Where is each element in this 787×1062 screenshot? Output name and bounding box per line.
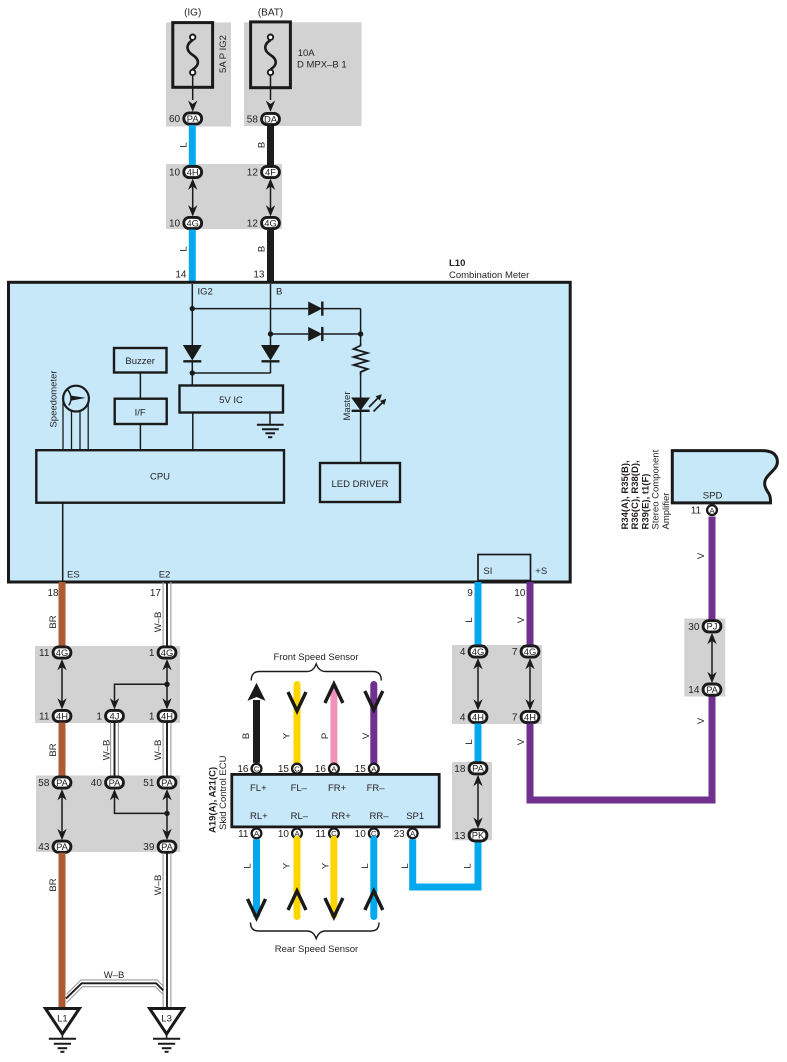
svg-text:PA: PA — [472, 763, 485, 774]
svg-text:10: 10 — [355, 829, 367, 840]
svg-text:43: 43 — [38, 842, 50, 853]
svg-text:10A: 10A — [298, 48, 316, 59]
svg-text:14: 14 — [175, 270, 187, 281]
svg-text:ES: ES — [67, 570, 80, 581]
svg-text:Buzzer: Buzzer — [125, 356, 155, 367]
svg-text:PA: PA — [706, 684, 719, 695]
svg-text:P: P — [320, 733, 331, 739]
svg-text:L: L — [178, 142, 189, 147]
svg-text:L: L — [178, 246, 189, 251]
svg-text:14: 14 — [688, 685, 700, 696]
svg-text:PA: PA — [161, 841, 174, 852]
svg-text:5V IC: 5V IC — [219, 395, 243, 406]
svg-text:4: 4 — [460, 713, 466, 724]
svg-text:W–B: W–B — [153, 875, 164, 896]
svg-text:PK: PK — [472, 830, 485, 841]
svg-text:23: 23 — [394, 829, 406, 840]
svg-text:4H: 4H — [524, 711, 536, 722]
svg-text:B: B — [241, 733, 252, 739]
svg-text:17: 17 — [150, 588, 162, 599]
svg-text:CPU: CPU — [150, 472, 170, 483]
svg-text:4G: 4G — [186, 217, 199, 228]
svg-text:PA: PA — [56, 841, 69, 852]
svg-text:DA: DA — [264, 113, 278, 124]
svg-text:4F: 4F — [265, 166, 276, 177]
svg-text:PA: PA — [161, 777, 174, 788]
svg-text:SPD: SPD — [703, 491, 723, 502]
svg-text:SP1: SP1 — [406, 811, 424, 822]
svg-text:B: B — [257, 246, 268, 252]
svg-text:RR–: RR– — [370, 811, 390, 822]
svg-text:40: 40 — [91, 778, 103, 789]
svg-text:L: L — [463, 863, 474, 868]
svg-text:4H: 4H — [187, 166, 199, 177]
svg-text:4H: 4H — [161, 710, 173, 721]
svg-text:4: 4 — [460, 647, 466, 658]
svg-text:10: 10 — [169, 168, 181, 179]
svg-text:60: 60 — [169, 114, 181, 125]
svg-text:58: 58 — [38, 778, 50, 789]
svg-text:7: 7 — [512, 647, 518, 658]
svg-text:L: L — [360, 863, 371, 868]
svg-text:W–B: W–B — [102, 740, 113, 761]
svg-text:11: 11 — [691, 506, 702, 517]
svg-text:PA: PA — [187, 113, 200, 124]
svg-text:18: 18 — [454, 764, 466, 775]
svg-text:Skid Control ECU: Skid Control ECU — [218, 755, 229, 830]
svg-text:L: L — [464, 739, 475, 744]
svg-text:V: V — [516, 616, 527, 623]
svg-text:RL–: RL– — [291, 811, 309, 822]
svg-text:D MPX–B 1: D MPX–B 1 — [297, 60, 347, 71]
svg-text:A19(A), A21(C): A19(A), A21(C) — [208, 767, 219, 833]
svg-text:11: 11 — [316, 829, 327, 840]
svg-text:L3: L3 — [161, 1014, 172, 1025]
svg-text:4J: 4J — [110, 710, 120, 721]
svg-text:10: 10 — [169, 219, 181, 230]
svg-text:30: 30 — [688, 622, 700, 633]
svg-text:12: 12 — [247, 168, 259, 179]
svg-text:(BAT): (BAT) — [258, 8, 283, 19]
svg-text:L: L — [464, 617, 475, 622]
svg-text:E2: E2 — [159, 570, 171, 581]
svg-text:B: B — [276, 287, 282, 298]
svg-text:FL–: FL– — [291, 783, 308, 794]
svg-text:L: L — [400, 863, 411, 868]
svg-text:4G: 4G — [264, 217, 277, 228]
svg-text:10: 10 — [278, 829, 290, 840]
svg-text:4G: 4G — [472, 646, 485, 657]
svg-text:15: 15 — [278, 764, 290, 775]
svg-text:4G: 4G — [524, 646, 537, 657]
svg-text:V: V — [361, 732, 372, 739]
svg-text:16: 16 — [315, 764, 327, 775]
svg-text:11: 11 — [238, 829, 249, 840]
svg-text:LED DRIVER: LED DRIVER — [331, 479, 388, 490]
svg-text:Amplifier: Amplifier — [661, 493, 672, 530]
svg-text:13: 13 — [454, 831, 466, 842]
svg-text:58: 58 — [247, 115, 259, 126]
svg-text:1: 1 — [149, 712, 155, 723]
svg-text:W–B: W–B — [153, 740, 164, 761]
svg-text:4H: 4H — [472, 711, 484, 722]
svg-text:39: 39 — [143, 842, 155, 853]
svg-text:4G: 4G — [161, 647, 174, 658]
svg-text:RR+: RR+ — [332, 811, 352, 822]
svg-text:L: L — [243, 863, 254, 868]
svg-text:FR–: FR– — [367, 783, 386, 794]
svg-text:11: 11 — [39, 648, 50, 659]
svg-text:BR: BR — [48, 743, 59, 756]
svg-text:16: 16 — [237, 764, 249, 775]
svg-text:SI: SI — [483, 566, 492, 577]
svg-text:BR: BR — [48, 615, 59, 628]
svg-text:C: C — [254, 764, 260, 773]
svg-text:V: V — [516, 738, 527, 745]
svg-text:B: B — [257, 142, 268, 148]
svg-text:11: 11 — [39, 712, 50, 723]
svg-text:(IG): (IG) — [184, 8, 201, 19]
svg-text:1: 1 — [96, 712, 102, 723]
svg-text:W–B: W–B — [153, 612, 164, 633]
svg-text:Rear Speed Sensor: Rear Speed Sensor — [275, 944, 358, 955]
svg-text:13: 13 — [253, 270, 265, 281]
svg-text:18: 18 — [47, 588, 59, 599]
svg-text:PA: PA — [56, 777, 69, 788]
svg-text:Front Speed Sensor: Front Speed Sensor — [273, 652, 358, 663]
svg-text:V: V — [696, 717, 707, 724]
svg-text:V: V — [696, 552, 707, 559]
svg-text:12: 12 — [247, 219, 259, 230]
svg-text:Speedometer: Speedometer — [49, 370, 60, 427]
svg-text:Master: Master — [342, 391, 353, 420]
svg-text:FL+: FL+ — [250, 783, 267, 794]
svg-text:5A P IG2: 5A P IG2 — [218, 35, 229, 73]
svg-text:C: C — [294, 764, 300, 773]
svg-text:I/F: I/F — [135, 408, 146, 419]
svg-text:51: 51 — [143, 778, 155, 789]
svg-text:4H: 4H — [56, 710, 68, 721]
svg-text:BR: BR — [48, 878, 59, 891]
svg-text:Y: Y — [320, 862, 331, 869]
svg-text:1: 1 — [149, 648, 155, 659]
svg-text:PJ: PJ — [707, 621, 718, 632]
svg-text:15: 15 — [355, 764, 367, 775]
svg-text:9: 9 — [467, 588, 473, 599]
svg-text:PA: PA — [109, 777, 122, 788]
svg-text:FR+: FR+ — [328, 783, 347, 794]
svg-text:4G: 4G — [56, 647, 69, 658]
svg-text:IG2: IG2 — [198, 287, 213, 298]
svg-text:RL+: RL+ — [250, 811, 268, 822]
svg-text:10: 10 — [514, 588, 526, 599]
svg-text:Combination Meter: Combination Meter — [449, 270, 529, 281]
svg-text:7: 7 — [512, 713, 518, 724]
svg-text:L10: L10 — [449, 258, 465, 269]
svg-text:+S: +S — [535, 566, 547, 577]
svg-text:Y: Y — [282, 732, 293, 739]
svg-text:L1: L1 — [57, 1014, 68, 1025]
svg-text:W–B: W–B — [104, 970, 125, 981]
svg-text:Y: Y — [281, 862, 292, 869]
